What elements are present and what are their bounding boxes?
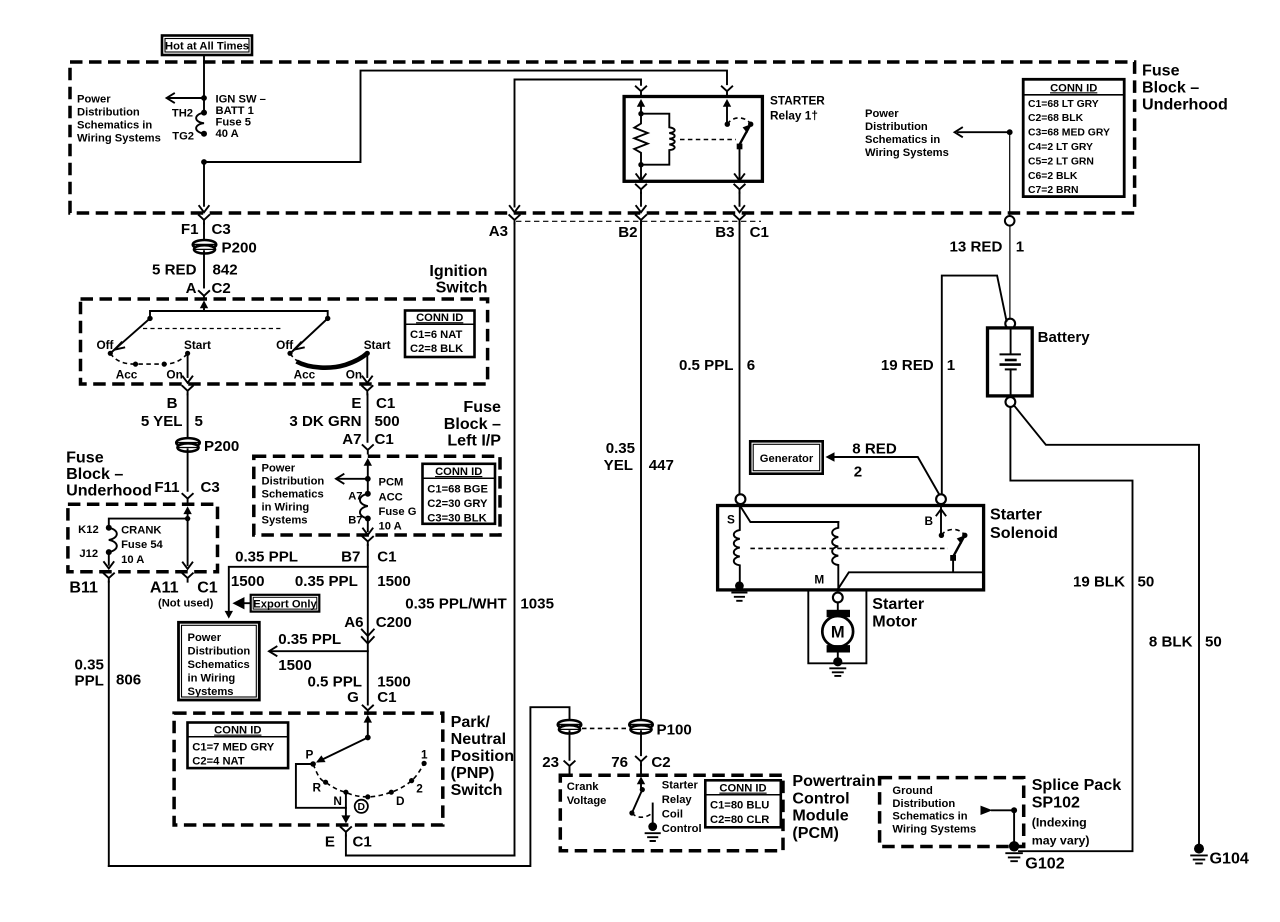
wire fuse output to starter relay switch pin (top run): [204, 71, 727, 162]
node Off contact (left): [108, 351, 113, 356]
svg-text:0.5 PPL: 0.5 PPL: [307, 673, 362, 690]
svg-text:Powertrain: Powertrain: [792, 772, 875, 790]
CONN ID box (PNP): [188, 723, 289, 769]
svg-text:Distribution: Distribution: [865, 121, 928, 133]
wire splice junction to G102: [1013, 810, 1015, 842]
svg-text:40 A: 40 A: [216, 128, 239, 140]
Hot at All Times label box: [162, 36, 252, 56]
battery bottom splice ring: [1006, 397, 1016, 407]
svg-text:P200: P200: [222, 240, 257, 257]
inline connector crank voltage (left): [558, 720, 582, 734]
node R contact: [323, 780, 328, 785]
svg-text:10 A: 10 A: [121, 554, 144, 566]
node 2 contact: [409, 778, 414, 783]
relay switch blade: [740, 124, 751, 144]
fuse 54 value label: [121, 525, 163, 566]
svg-text:B2: B2: [618, 224, 637, 241]
relay switch travel arc (dashed): [727, 118, 750, 124]
svg-text:0.35: 0.35: [75, 656, 104, 673]
wire arrow to power distribution schematics (top left): [167, 93, 204, 102]
relay switch pin arrow (inside top): [723, 99, 731, 124]
svg-text:447: 447: [649, 457, 674, 474]
wire P contact to output: [296, 764, 346, 808]
svg-text:in Wiring: in Wiring: [188, 672, 236, 684]
wire 13 RED to battery: [1009, 226, 1011, 319]
svg-text:Fuse: Fuse: [1142, 62, 1180, 80]
label Crank Voltage: [567, 781, 607, 807]
wire 13 RED stub down to splice: [1009, 132, 1011, 216]
svg-text:C3: C3: [212, 221, 231, 238]
node splice junction: [1011, 807, 1017, 813]
title Fuse Block - Underhood (left): [66, 448, 152, 499]
svg-text:B: B: [167, 395, 178, 412]
wire arrow branch to power distribution box: [269, 647, 368, 656]
svg-text:PCM: PCM: [379, 477, 404, 489]
ground G102: [1006, 841, 1022, 861]
svg-text:C2=80 CLR: C2=80 CLR: [710, 814, 769, 826]
svg-text:B7: B7: [348, 514, 362, 526]
svg-text:Fuse: Fuse: [463, 398, 501, 416]
fuse block left I/P dashed box: [254, 456, 500, 535]
node D contact: [389, 790, 394, 795]
connector A3 chevron: [509, 215, 519, 855]
CONN ID box (ignition switch): [405, 311, 475, 358]
wire M terminal to motor: [837, 602, 839, 610]
inductor coil (relay): [641, 114, 675, 165]
node junction to power distribution (left I/P): [365, 476, 371, 482]
connector chevron at relay coil pin top: [636, 86, 646, 94]
title Starter Motor: [872, 595, 925, 631]
ignition gang link (dashed): [143, 328, 283, 330]
svg-text:Voltage: Voltage: [567, 795, 607, 807]
PCM switch ground contact: [646, 804, 660, 842]
fuse G (PCM ACC 10 A): [360, 491, 371, 522]
node Off contact (right): [287, 351, 292, 356]
svg-text:Generator: Generator: [760, 453, 814, 465]
node N contact: [343, 790, 348, 795]
motor M symbol: [822, 610, 853, 653]
svg-text:J12: J12: [79, 548, 98, 560]
svg-text:5 YEL: 5 YEL: [141, 413, 183, 430]
svg-text:Starter: Starter: [990, 506, 1043, 524]
svg-text:G: G: [347, 689, 359, 706]
svg-text:1: 1: [947, 357, 955, 374]
svg-text:Schematics in: Schematics in: [892, 811, 967, 823]
connector B11 chevron: [104, 573, 114, 866]
svg-text:Relay 1†: Relay 1†: [770, 109, 818, 123]
svg-text:842: 842: [213, 262, 238, 279]
svg-text:1: 1: [421, 747, 428, 761]
svg-text:C1=68 LT GRY: C1=68 LT GRY: [1028, 99, 1099, 110]
svg-text:STARTER: STARTER: [770, 94, 825, 108]
svg-text:Power: Power: [262, 462, 296, 474]
svg-text:1: 1: [1016, 239, 1024, 256]
pin label B3 C1: [715, 224, 769, 241]
svg-text:Power: Power: [188, 632, 222, 644]
pin label E C1 (PNP): [325, 833, 372, 850]
node PCM switch pivot: [640, 787, 645, 792]
wire S to pull-in coil: [741, 507, 839, 523]
wire fuse 54 to B11: [104, 552, 114, 568]
node PCM blade end: [629, 810, 634, 815]
travel arc Off-Acc-On-Start (left, dashed): [110, 353, 187, 364]
park/neutral position switch dashed box: [174, 713, 443, 825]
generator box: [750, 441, 823, 473]
svg-text:Distribution: Distribution: [77, 107, 140, 119]
svg-text:0.35 PPL: 0.35 PPL: [278, 631, 341, 648]
svg-text:YEL: YEL: [604, 457, 633, 474]
power distribution schematics text (top left): [77, 94, 161, 145]
CONN ID box (left I/P): [423, 464, 496, 525]
wire F1 fuse output down through border: [199, 162, 209, 212]
wire F11 junction to fuse 54 top: [109, 519, 188, 525]
svg-text:C1: C1: [377, 689, 396, 706]
circled D (drive): [355, 800, 368, 814]
wire crank voltage into PCM: [564, 731, 574, 774]
connector F11 chevron: [182, 494, 192, 502]
wire arrow to power distribution (right): [955, 128, 1010, 137]
svg-text:Off: Off: [96, 338, 113, 352]
connector line C1 (thin dashed under border): [516, 220, 761, 222]
svg-text:8 BLK: 8 BLK: [1149, 633, 1193, 650]
node relay coil top: [638, 111, 643, 116]
svg-text:C5=2 LT GRN: C5=2 LT GRN: [1028, 156, 1094, 167]
svg-text:B11: B11: [69, 578, 98, 596]
wire A3 branch down to border: [510, 206, 520, 212]
node Start (left): [185, 351, 190, 356]
svg-text:P200: P200: [204, 438, 239, 455]
starter motor enclosure: [808, 590, 866, 663]
svg-text:Module: Module: [792, 807, 848, 825]
svg-text:Park/: Park/: [451, 713, 491, 731]
svg-text:C1: C1: [750, 224, 769, 241]
label Starter Relay Coil Control: [662, 779, 702, 835]
label 8 BLK 50: [1149, 633, 1222, 650]
svg-text:G102: G102: [1025, 854, 1064, 872]
node solenoid blade pivot: [962, 533, 967, 538]
wire P200 to crank fuse box: [187, 449, 189, 491]
labels left pole positions: [96, 338, 210, 382]
solenoid B terminal ring: [936, 494, 946, 504]
right switch blade: [292, 318, 328, 351]
svg-text:C1=6 NAT: C1=6 NAT: [410, 329, 462, 341]
title Powertrain Control Module (PCM): [792, 772, 875, 842]
svg-text:Distribution: Distribution: [188, 645, 251, 657]
title Park/Neutral Position (PNP) Switch: [451, 713, 514, 799]
solenoid mechanical link (dashed): [750, 547, 948, 549]
fuse F5 (IGN SW - BATT 1 Fuse 5 40 A): [196, 110, 207, 137]
node center contact: [365, 794, 370, 799]
pull-in coil: [832, 522, 838, 589]
pin label F1 C3: [181, 221, 231, 238]
node F11 junction to fuse 54: [185, 516, 190, 521]
svg-text:Export Only: Export Only: [253, 598, 317, 610]
battery box: [988, 328, 1033, 396]
title Splice Pack SP102: [1032, 776, 1122, 848]
svg-text:C3: C3: [201, 479, 220, 496]
ground G104: [1191, 844, 1207, 864]
svg-text:Ground: Ground: [892, 785, 933, 797]
svg-text:N: N: [333, 794, 342, 808]
title Fuse Block - Left I/P: [444, 398, 502, 450]
svg-text:(PNP): (PNP): [451, 764, 495, 782]
svg-text:Crank: Crank: [567, 781, 599, 793]
svg-text:M: M: [814, 573, 824, 587]
svg-text:D: D: [358, 802, 366, 813]
node solenoid switch fixed contact: [939, 533, 944, 538]
svg-text:C4=2 LT GRY: C4=2 LT GRY: [1028, 142, 1093, 153]
power distribution schematics text (left I/P): [262, 462, 325, 526]
node right pole pivot: [325, 316, 330, 321]
svg-text:B7: B7: [341, 548, 360, 565]
svg-text:Fuse 54: Fuse 54: [121, 539, 163, 551]
svg-text:Control: Control: [792, 789, 849, 807]
svg-text:A: A: [186, 280, 197, 297]
svg-text:Fuse: Fuse: [66, 448, 104, 466]
node junction 13 RED / power distribution: [1007, 129, 1013, 135]
ignition switch entry arrow: [200, 300, 208, 311]
wire relay switch output B3 to border: [734, 185, 744, 213]
svg-text:P100: P100: [657, 721, 692, 738]
label 0.35 PPL / pin B7 C1: [235, 548, 396, 565]
battery top splice ring: [1005, 319, 1015, 329]
svg-text:Fuse 5: Fuse 5: [216, 117, 251, 129]
svg-text:(Not used): (Not used): [158, 597, 214, 609]
inline connector P200 (F1-A): [193, 240, 217, 254]
svg-text:Ignition: Ignition: [429, 262, 487, 280]
svg-text:CONN ID: CONN ID: [435, 466, 482, 478]
connector B7/C1 chevron below left I/P: [363, 537, 373, 705]
svg-text:D: D: [396, 794, 405, 808]
svg-text:C3=68 MED GRY: C3=68 MED GRY: [1028, 128, 1110, 139]
title Fuse Block - Underhood (top right): [1142, 62, 1228, 114]
svg-text:(PCM): (PCM): [792, 824, 838, 842]
svg-text:Power: Power: [865, 108, 899, 120]
svg-text:10 A: 10 A: [379, 521, 402, 533]
svg-text:F11: F11: [154, 479, 179, 496]
svg-text:13 RED: 13 RED: [950, 239, 1003, 256]
svg-text:C1: C1: [377, 548, 396, 565]
connector chevron A into ignition switch: [199, 291, 209, 299]
label 8 RED 2: [852, 440, 897, 480]
label 0.35 PPL 806: [75, 656, 142, 689]
labels PNP positions: [306, 747, 429, 808]
svg-text:G104: G104: [1210, 850, 1249, 868]
svg-text:C2: C2: [212, 280, 231, 297]
pin label 76 C2: [611, 754, 670, 771]
node solenoid switch lower contact: [950, 555, 956, 561]
export only label box: [235, 595, 320, 612]
svg-text:Motor: Motor: [872, 613, 917, 631]
svg-text:C2=8 BLK: C2=8 BLK: [410, 343, 463, 355]
pin label A7 C1: [342, 431, 394, 448]
svg-text:50: 50: [1205, 633, 1222, 650]
svg-text:23: 23: [542, 754, 559, 771]
svg-text:A3: A3: [489, 223, 508, 240]
travel arc Off-Acc (right, dashed): [290, 353, 306, 364]
wire arrow splice pack reference: [981, 806, 1015, 815]
relay coil pin arrow (inside top): [637, 99, 645, 114]
left switch blade: [112, 318, 150, 351]
svg-text:Distribution: Distribution: [262, 475, 325, 487]
svg-text:Starter: Starter: [872, 595, 925, 613]
wire fuse G output to box edge: [363, 519, 373, 535]
svg-text:M: M: [831, 623, 845, 641]
pin label E C1: [351, 395, 395, 412]
svg-text:Wiring Systems: Wiring Systems: [865, 147, 949, 159]
ignition bus wire: [150, 311, 328, 316]
svg-text:Neutral: Neutral: [451, 730, 506, 748]
node relay coil bottom: [638, 162, 643, 167]
svg-text:Acc: Acc: [294, 367, 316, 381]
svg-text:Wiring Systems: Wiring Systems: [77, 133, 161, 145]
crank fuse dashed box: [68, 504, 218, 572]
label 0.5 PPL 1500: [307, 673, 410, 690]
power distribution schematics box (solid): [179, 622, 260, 700]
PNP entry arrow G: [364, 715, 372, 738]
svg-text:in Wiring: in Wiring: [262, 501, 310, 513]
svg-text:Schematics in: Schematics in: [77, 120, 152, 132]
svg-text:C2=4 NAT: C2=4 NAT: [192, 755, 244, 767]
svg-text:P: P: [306, 747, 314, 761]
svg-text:IGN SW –: IGN SW –: [216, 94, 266, 106]
label 19 RED 1: [881, 357, 955, 374]
pin label A C2: [186, 280, 231, 297]
svg-text:0.5 PPL: 0.5 PPL: [679, 357, 734, 374]
svg-text:C2: C2: [651, 754, 670, 771]
label 0.35 PPL/WHT 1035: [405, 595, 554, 612]
ground distribution schematics text: [892, 785, 976, 835]
svg-text:C2=68 BLK: C2=68 BLK: [1028, 113, 1084, 124]
svg-text:F1: F1: [181, 221, 199, 238]
svg-text:Systems: Systems: [262, 514, 308, 526]
svg-text:CONN ID: CONN ID: [1050, 82, 1097, 94]
svg-text:B3: B3: [715, 224, 734, 241]
svg-text:19 RED: 19 RED: [881, 357, 934, 374]
power distribution schematics text (right): [865, 108, 949, 159]
connector F1/C3 chevron: [199, 215, 209, 240]
svg-text:Underhood: Underhood: [66, 481, 152, 499]
svg-text:C3=30 BLK: C3=30 BLK: [427, 512, 486, 524]
svg-text:CONN ID: CONN ID: [416, 312, 463, 324]
svg-text:5 RED: 5 RED: [152, 262, 197, 279]
svg-text:1035: 1035: [520, 595, 554, 612]
wire 19 RED battery to solenoid B: [942, 276, 1007, 495]
title Ignition Switch: [429, 262, 487, 297]
svg-text:1500: 1500: [231, 573, 265, 590]
svg-text:2: 2: [416, 781, 423, 795]
svg-text:PPL: PPL: [75, 672, 104, 689]
svg-text:Start: Start: [184, 338, 211, 352]
label 0.5 PPL 6: [679, 357, 755, 374]
node left pole pivot: [147, 316, 152, 321]
svg-text:C1: C1: [376, 395, 395, 412]
svg-text:B: B: [925, 514, 934, 528]
left I/P entry arrow: [364, 458, 372, 493]
label 19 BLK 50: [1073, 573, 1154, 590]
svg-text:8 RED: 8 RED: [852, 440, 897, 457]
inline connector P100: [629, 720, 653, 734]
svg-text:C1=68 BGE: C1=68 BGE: [427, 483, 488, 495]
wire B11 0.35 PPL 806 to crank voltage input: [109, 707, 570, 866]
svg-text:C1: C1: [353, 833, 372, 850]
starter relay label: [770, 94, 825, 123]
svg-text:S: S: [727, 513, 735, 527]
node relay switch lower contact: [737, 144, 743, 150]
starter relay box: [624, 97, 762, 182]
svg-text:Splice Pack: Splice Pack: [1032, 776, 1122, 794]
svg-text:CONN ID: CONN ID: [214, 725, 261, 737]
svg-text:Start: Start: [364, 338, 391, 352]
ignition switch dashed box: [81, 299, 488, 384]
svg-text:1500: 1500: [278, 657, 312, 674]
svg-text:C1=7 MED GRY: C1=7 MED GRY: [192, 741, 274, 753]
svg-text:Wiring Systems: Wiring Systems: [892, 823, 976, 835]
node 1 contact: [422, 761, 427, 766]
svg-text:0.35 PPL/WHT: 0.35 PPL/WHT: [405, 595, 507, 612]
wire left pole output B: [183, 353, 193, 383]
splice ring at border: [1005, 216, 1015, 226]
resistor (relay): [634, 114, 647, 165]
svg-text:CRANK: CRANK: [121, 525, 161, 537]
P100 pair link (dashed): [582, 727, 629, 729]
connector B2 chevron: [636, 215, 646, 719]
connector B chevron below ignition box: [182, 386, 192, 438]
pin label G C1: [347, 689, 396, 706]
CONN ID box (fuse block underhood): [1023, 79, 1124, 196]
relay mechanical link (dashed): [680, 139, 736, 141]
svg-text:6: 6: [747, 357, 755, 374]
wire branch line to relay coil and A3: [515, 80, 642, 207]
node PNP pivot: [365, 735, 371, 741]
wire 19 BLK battery to G102: [1010, 407, 1132, 851]
fuse G value label: [379, 477, 417, 533]
svg-text:Block –: Block –: [444, 415, 501, 433]
connector E/C1 chevron below PNP: [341, 827, 515, 855]
connector A7 chevron into left I/P: [363, 445, 373, 453]
label 0.35 YEL 447: [604, 440, 674, 474]
ground distribution dashed box: [880, 778, 1024, 847]
svg-text:ACC: ACC: [379, 491, 403, 503]
svg-text:Underhood: Underhood: [1142, 96, 1228, 114]
svg-text:Switch: Switch: [436, 279, 488, 297]
svg-text:Hot at All Times: Hot at All Times: [165, 41, 249, 53]
svg-text:A6: A6: [344, 614, 363, 631]
svg-text:E: E: [351, 395, 361, 412]
svg-text:A11: A11: [150, 578, 179, 596]
heavy arc Acc-On-Start (right): [297, 353, 368, 368]
svg-text:Off: Off: [276, 338, 293, 352]
starter solenoid box: [718, 506, 984, 590]
svg-text:TH2: TH2: [172, 108, 193, 120]
connector G chevron into PNP: [363, 706, 373, 714]
starter motor ground: [830, 653, 845, 676]
svg-text:E: E: [325, 833, 335, 850]
svg-text:Fuse G: Fuse G: [379, 506, 417, 518]
wire 76 into PCM: [636, 731, 646, 774]
wire B pin into switch: [936, 504, 945, 535]
node relay blade pivot: [748, 122, 753, 127]
M terminal ring: [833, 593, 843, 603]
battery cell symbol: [1000, 329, 1021, 396]
svg-text:5: 5: [195, 413, 203, 430]
svg-text:806: 806: [116, 671, 141, 688]
svg-text:Switch: Switch: [451, 781, 503, 799]
connector chevron at relay switch pin top: [722, 86, 732, 94]
solenoid coil ground: [732, 581, 746, 600]
svg-text:TG2: TG2: [172, 131, 194, 143]
svg-text:A7: A7: [342, 431, 361, 448]
